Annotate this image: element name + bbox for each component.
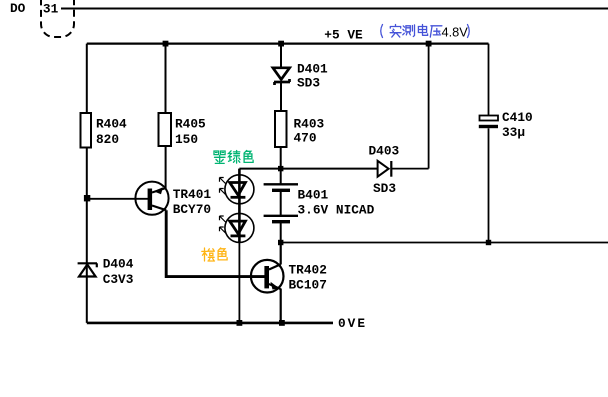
svg-text:R405: R405 [175, 116, 206, 131]
svg-text:BC107: BC107 [289, 277, 327, 292]
svg-text:B401: B401 [298, 187, 329, 202]
svg-text:R403: R403 [294, 116, 325, 131]
svg-text:820: 820 [96, 132, 119, 147]
svg-text:+5 VE: +5 VE [324, 27, 363, 42]
svg-text:DO: DO [10, 1, 26, 16]
svg-text:4.8V: 4.8V [442, 25, 469, 40]
svg-text:150: 150 [175, 132, 198, 147]
svg-text:D401: D401 [297, 61, 328, 76]
svg-text:D404: D404 [103, 256, 134, 271]
svg-text:33μ: 33μ [502, 125, 525, 140]
svg-text:D403: D403 [369, 144, 400, 159]
svg-text:SD3: SD3 [297, 75, 320, 90]
svg-text:470: 470 [294, 131, 317, 146]
svg-text:TR401: TR401 [173, 187, 212, 202]
svg-text:3.6V NICAD: 3.6V NICAD [298, 202, 375, 217]
svg-text:SD3: SD3 [373, 181, 396, 196]
svg-text:31: 31 [43, 2, 59, 17]
svg-text:TR402: TR402 [289, 262, 327, 277]
svg-text:R404: R404 [96, 116, 127, 131]
svg-text:BCY70: BCY70 [173, 202, 211, 217]
svg-text:C3V3: C3V3 [103, 272, 134, 287]
svg-text:0VE: 0VE [338, 316, 367, 331]
svg-text:C410: C410 [502, 110, 533, 125]
